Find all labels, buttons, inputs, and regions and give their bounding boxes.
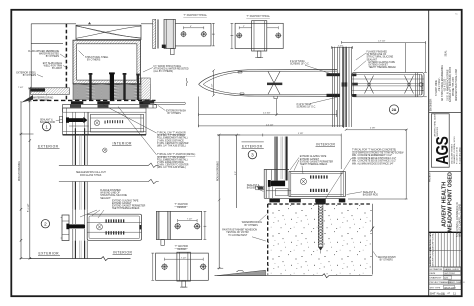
svg-text:INTERIOR: INTERIOR [316,142,336,146]
note leaders [80,210,104,218]
svg-text:EXTEND GLAZING TAPE: EXTEND GLAZING TAPE [369,61,396,64]
channel dark block [162,45,166,48]
svg-text:MIN. CONCRETE EDGE DISTANCE 1: MIN. CONCRETE EDGE DISTANCE 1 1/2” [352,157,396,160]
rough opening dim lines [20,101,22,258]
svg-text:EXTEND GLAZING TAPE: EXTEND GLAZING TAPE [112,199,139,202]
svg-text:WATERPROOFING: WATERPROOFING [33,96,54,99]
divider logo/project [429,170,462,172]
svg-text:WESLEY CHAPEL, FL 33543: WESLEY CHAPEL, FL 33543 [459,203,462,237]
svg-text:BY OTHERS: BY OTHERS [36,100,50,102]
svg-text:MIN. CONCRETE EDGE DISTANCE 3: MIN. CONCRETE EDGE DISTANCE 3 1/2” [352,160,396,163]
lower plate dim [165,258,204,261]
svg-text:# 12 W T204A: # 12 W T204A [290,60,305,63]
detail 1 texts [16,50,195,169]
svg-text:EXTERIOR: EXTERIOR [242,145,263,149]
svg-text:06: 06 [441,292,445,296]
svg-text:EXTEND GLAZING TAPE: EXTEND GLAZING TAPE [300,155,327,158]
svg-text:SEALANT: SEALANT [100,197,111,200]
svg-text:EXTEND GASKET PERIMETER: EXTEND GASKET PERIMETER [112,205,146,208]
svg-text:SHT No.: SHT No. [430,291,442,295]
svg-text:2” MIN. EDGE DISTANCE: 2” MIN. EDGE DISTANCE [157,139,184,142]
svg-text:KANSAS CITY, MISSOURI, 64153: KANSAS CITY, MISSOURI, 64153 [449,66,452,102]
svg-text:WWW.ADSTRUCTURAL.COM: WWW.ADSTRUCTURAL.COM [455,69,458,101]
svg-text:06/17/2024: 06/17/2024 [444,273,455,275]
detail 2 note block [100,189,145,210]
glass run down to sill [275,137,288,181]
svg-text:EXTERIOR: EXTERIOR [38,145,59,149]
left dims [218,135,220,268]
svg-text:BY OTHERS: BY OTHERS [245,225,259,227]
svg-text:AJV: AJV [444,277,448,280]
svg-text:(MIN. 1/4” THK A36 STEEL): (MIN. 1/4” THK A36 STEEL) [157,145,186,148]
lower plate tail [182,281,186,287]
svg-text:ATTACHED & WATER RESISTED: ATTACHED & WATER RESISTED [154,68,189,71]
field rows [429,267,462,290]
svg-text:EXT SLAB ANGLE: EXT SLAB ANGLE [43,62,63,65]
svg-text:SEALANT &: SEALANT & [40,119,53,122]
glass stubs through joint [73,210,87,224]
glass run segment A [73,135,87,166]
lower plate mullion [177,252,191,281]
svg-text:WATERPROOFING: WATERPROOFING [242,221,263,224]
svg-text:of: of [448,292,450,295]
sill wedge flashing [217,270,265,275]
svg-text:2: 2 [44,222,47,227]
svg-text:2A: 2A [392,108,397,112]
svg-text:FOR GLASS TYPES: FOR GLASS TYPES [80,174,102,177]
AGS logo box [431,114,449,167]
svg-text:(2) Ø DIA. T-TYPE SCREW: (2) Ø DIA. T-TYPE SCREW [157,134,186,137]
svg-text:F.T. WOOD STRUCTURAL: F.T. WOOD STRUCTURAL [154,65,182,68]
svg-text:TYPICAL FOR “T” ANCHOR (CONCRE: TYPICAL FOR “T” ANCHOR (CONCRETE) [352,149,396,152]
svg-text:SHOP DWG: SHOP DWG [444,287,456,289]
svg-text:FLANGE FINISHED: FLANGE FINISHED [100,189,121,192]
top dim lines [342,41,427,97]
svg-text:5 7/8”: 5 7/8” [298,133,303,135]
central dark bar [267,83,282,86]
svg-text:1: 1 [45,124,48,129]
right wall clip [139,225,141,229]
svg-text:PHONE: 555-1867: PHONE: 555-1867 [453,76,455,96]
sill anchor clips [269,199,280,203]
svg-text:10001 N. AMBERJACK DRIVE: 10001 N. AMBERJACK DRIVE [446,69,449,101]
svg-text:EXTEND GASKET PERIMETER: EXTEND GASKET PERIMETER [300,160,334,163]
svg-text:“T” ANCHOR: “T” ANCHOR [174,203,188,206]
sill glass pocket verticals [266,170,291,199]
svg-text:MIN. ALUMINUM EDGE DISTANCE 3/: MIN. ALUMINUM EDGE DISTANCE 3/4” [352,163,394,166]
svg-text:DESIGN: DESIGN [177,207,186,209]
receptor right dark section [143,100,154,103]
plate 1 right dim [212,23,215,46]
head bottom gasket band [63,134,146,136]
internal X brace [268,72,280,95]
svg-text:WATER RESISTED: WATER RESISTED [39,53,60,56]
svg-text:SEAL:: SEAL: [444,50,447,57]
head thermal break teeth [105,120,124,123]
engineer info block [435,65,458,102]
lower plate [156,253,209,280]
svg-text:(2) Ø DIA. T-TYPE SCREW: (2) Ø DIA. T-TYPE SCREW [157,156,186,159]
svg-text:7 1/2”: 7 1/2” [187,219,192,221]
svg-text:SERVICES: SERVICES [437,126,439,136]
svg-text:DESCRIPTION No.2: DESCRIPTION No.2 [432,249,434,266]
svg-text:SEALANT &: SEALANT & [363,191,376,194]
svg-text:11: 11 [453,292,456,296]
svg-text:FULL EMBEDMENT (METAL): FULL EMBEDMENT (METAL) [157,137,188,140]
thermal teeth rows [310,175,328,192]
plate 2 bolts [237,33,242,38]
deck line top [31,23,76,25]
svg-text:# 12 W T204A: # 12 W T204A [297,103,312,106]
title block left edge [428,10,430,296]
leaders for notes [60,54,66,58]
svg-text:ENGINEER:: ENGINEER: [431,98,433,111]
svg-text:TO LOOSE PAINT: TO LOOSE PAINT [228,234,248,237]
2A labels [212,40,425,126]
svg-text:STRUCTURAL SILICONE: STRUCTURAL SILICONE [100,194,127,197]
svg-text:ROUGH OPENING: ROUGH OPENING [217,161,219,181]
svg-text:SCREWS 18” O.C.: SCREWS 18” O.C. [290,63,310,65]
detail 3 labels [222,128,404,262]
svg-text:ESTIMATOR: ESTIMATOR [430,268,443,271]
svg-text:DANIEL GUFFY: DANIEL GUFFY [444,268,460,271]
slab band dark tip [21,95,33,103]
head spline circle [94,120,100,126]
svg-text:4 1/2”: 4 1/2” [422,86,424,91]
floor line bottom left [30,257,131,261]
nose vertical dim [212,69,215,96]
svg-text:PAINT RUST-INHIBIT ADHESION: PAINT RUST-INHIBIT ADHESION [222,229,257,232]
svg-text:2'-6 1/4”: 2'-6 1/4” [266,125,274,127]
sealant dark bar [271,181,285,187]
concrete mass [215,202,375,278]
svg-text:TEETH THERMAL BREAK: TEETH THERMAL BREAK [369,66,397,69]
upper plate bolt R [195,224,200,229]
head inner F profile [90,114,143,132]
wall line vertical left [30,24,32,88]
upper plate right dim [204,211,207,239]
right profile X braces [365,76,414,94]
spline circle [300,178,306,184]
svg-text:FULL EMBEDMENT (METAL): FULL EMBEDMENT (METAL) [157,158,188,161]
svg-text:DESCRIPTION No.1: DESCRIPTION No.1 [432,232,434,249]
svg-text:AD STRUCTURAL ENGINEERING: AD STRUCTURAL ENGINEERING [441,65,444,101]
plate 2 dim [239,26,278,29]
upper plate tail [161,240,164,246]
lower plate left dim [151,253,154,280]
thermal break teeth rows [106,219,125,234]
svg-text:TYPICAL C/W “T” ANCHOR (METAL): TYPICAL C/W “T” ANCHOR (METAL) [157,153,196,156]
glass type symbol [103,148,107,152]
plate 2 tail [257,51,261,57]
svg-text:2” MIN. EDGE DISTANCE: 2” MIN. EDGE DISTANCE [157,161,184,164]
detail 3 bubble [248,150,256,158]
svg-text:TEETH THERMAL BREAK: TEETH THERMAL BREAK [112,207,140,210]
anchor rod [316,202,326,204]
mullion glass bundle vertical [332,47,351,127]
mullion body [87,214,141,240]
svg-text:AGS: AGS [433,137,452,165]
svg-text:BACKER ROD: BACKER ROD [363,193,379,196]
plate 1 dim [184,26,204,29]
revision table [429,232,462,267]
glass run segment C [73,241,87,259]
bottom dim lines [199,97,337,128]
svg-text:BACKER ROD: BACKER ROD [247,186,263,189]
svg-text:STRUCTURAL SILICONE: STRUCTURAL SILICONE [367,56,394,59]
detail 2 bubble [41,220,49,228]
svg-text:“T” ANCHOR TYPICAL: “T” ANCHOR TYPICAL [246,15,270,18]
svg-text:ROUGH OPENING: ROUGH OPENING [19,161,21,181]
svg-text:DATE: DATE [430,272,436,275]
plate 1 bolts [181,32,186,37]
svg-text:TOMY CHMELO: TOMY CHMELO [449,282,465,284]
right dim [345,129,408,199]
lower plate bolt R [201,264,206,269]
svg-text:EXTEND GASKET: EXTEND GASKET [112,202,132,205]
trim break mark [186,78,187,86]
svg-text:“T” ANCHOR TYPICAL: “T” ANCHOR TYPICAL [183,14,207,17]
svg-text:BY OTHERS: BY OTHERS [46,56,60,58]
channel mullion [164,19,175,48]
svg-text:4 1/2”: 4 1/2” [212,84,214,89]
glazing clips on profile [238,71,244,95]
svg-text:F: (407) 872-0884: F: (407) 872-0884 [459,147,461,164]
svg-text:EXTEND GASKET: EXTEND GASKET [300,158,320,161]
svg-text:FLUID APPLIED MEMBRANE: FLUID APPLIED MEMBRANE [28,50,59,53]
plate 2 mullion [252,21,267,51]
structural steel tube (hatched walls) [73,40,141,83]
svg-text:(ALL BY OTHERS): (ALL BY OTHERS) [154,70,174,73]
svg-text:STUART JONE: STUART JONE [435,80,438,96]
svg-text:DRAWN BY: DRAWN BY [430,277,442,280]
anchor bolts [89,74,91,100]
svg-text:SHT TYPE: SHT TYPE [430,287,441,289]
svg-text:4 7/8”: 4 7/8” [370,128,375,130]
spline circle [97,224,103,230]
svg-text:1615 ACME STREET: 1615 ACME STREET [450,143,453,164]
svg-text:7 1/2”: 7 1/2” [181,257,186,259]
svg-text:PROJECT:: PROJECT: [430,172,432,182]
concrete right edge w break [370,204,374,275]
svg-text:SEALANT &: SEALANT & [247,184,260,187]
svg-text:ORLANDO, FLORIDA, 34743: ORLANDO, FLORIDA, 34743 [453,136,456,164]
svg-text:EXTEND GASKET: EXTEND GASKET [369,64,389,67]
top dim [217,134,341,169]
sill body outline [264,170,289,199]
svg-text:DESIGN: DESIGN [178,249,187,251]
svg-text:- PE # 74212 -: - PE # 74212 - [439,77,441,92]
break line lower [59,179,159,183]
head dashed joint line [33,99,156,101]
head frame body [63,108,146,135]
detail 1 bubble [42,122,50,130]
svg-text:INTERIOR: INTERIOR [113,250,133,254]
svg-text:MEADOW POINT OSED: MEADOW POINT OSED [448,172,454,232]
backer rod symbol [59,117,62,123]
concrete dashed left edge [267,204,269,275]
svg-text:7 1/4”: 7 1/4” [18,87,23,89]
upper plate channel [159,211,170,239]
setting blocks at mullion [327,73,340,76]
svg-text:BY OTHERS: BY OTHERS [380,259,394,261]
right profile body [352,73,424,97]
lower plate bolt L [162,264,167,269]
svg-text:BY OTHERS: BY OTHERS [87,59,101,61]
svg-text:MIN. CONCRETE EMBEDMENT 3 1/2”: MIN. CONCRETE EMBEDMENT 3 1/2” [352,155,392,157]
head anchor clips [71,101,83,104]
concrete bottom line [215,274,373,278]
upper plate bolt L [175,224,180,229]
svg-text:- LB # 31523 -: - LB # 31523 - [445,77,447,92]
svg-text:TEETH THERMAL BREAK: TEETH THERMAL BREAK [300,163,328,166]
plate 2 [235,23,283,48]
pressure bolt dark [69,224,85,228]
upper plate dim [178,219,198,222]
svg-text:FLANGE FINISHED: FLANGE FINISHED [367,51,388,54]
svg-text:P: (407) 872-0710: P: (407) 872-0710 [457,146,459,164]
steel label leader [79,51,85,57]
glazing trim lines right [154,102,185,105]
head receptor channel [63,104,157,112]
divider project/revision table [429,231,462,233]
svg-text:1'-9 1/4”: 1'-9 1/4” [378,40,386,42]
head pressure bolt [69,118,84,122]
svg-text:INTERIOR: INTERIOR [113,142,133,146]
concrete dashed top edge [268,203,373,205]
svg-text:BY OTHERS: BY OTHERS [168,113,182,115]
steel beam elevation [76,25,141,39]
flashing leg left [256,186,265,190]
channel detail hatched bar [153,19,156,48]
svg-text:SEE ELEVATION CALL-OUT: SEE ELEVATION CALL-OUT [76,171,106,174]
right profile end cap [416,73,422,97]
svg-text:No.: No. [455,14,459,16]
slab shelf line [31,42,63,44]
svg-text:2'-0”: 2'-0” [235,171,237,175]
svg-text:5'-1 1/2”: 5'-1 1/2” [28,203,30,212]
plate 1 [175,23,211,46]
svg-text:(MIN. 1/4” THK A36 STEEL): (MIN. 1/4” THK A36 STEEL) [157,166,186,169]
nose profile outer [199,70,337,97]
break line upper [59,163,159,167]
wood band right hatch [141,78,150,100]
label underlines detail1 [37,54,165,155]
nose profile inner [203,71,337,95]
wood blocking band [73,84,150,99]
svg-text:EXTERIOR: EXTERIOR [39,251,60,255]
svg-text:TYPICAL C/W “T” ANCHOR: TYPICAL C/W “T” ANCHOR [157,132,186,135]
svg-text:STRUCTURAL STEEL: STRUCTURAL STEEL [85,56,109,59]
slab edge dashed line [65,24,67,101]
slab waterproofing band [30,88,69,95]
svg-text:SCREWS 18” O.C.: SCREWS 18” O.C. [297,106,317,108]
svg-text:BY OTHERS: BY OTHERS [23,75,37,77]
upper plate [156,211,201,239]
plate 2 left dim [231,23,234,48]
divider engineer/logo [429,112,462,114]
line to anchor detail [141,23,153,25]
svg-text:3: 3 [251,152,254,157]
svg-text:(2) Ø SIMPSON STRONG-TIE TITAN: (2) Ø SIMPSON STRONG-TIE TITAN HD SCREW [352,151,404,154]
2A bubble [389,105,398,114]
face cap [62,215,69,241]
svg-text:5 3/4”: 5 3/4” [338,45,343,47]
svg-text:2'-3 3/4”: 2'-3 3/4” [263,113,271,115]
svg-text:“T” ANCHOR: “T” ANCHOR [175,245,189,248]
glass run segment B [73,182,87,210]
channel tail [171,49,175,55]
svg-text:SEALANT: SEALANT [367,58,378,61]
svg-text:BY ARCH: BY ARCH [52,67,62,70]
